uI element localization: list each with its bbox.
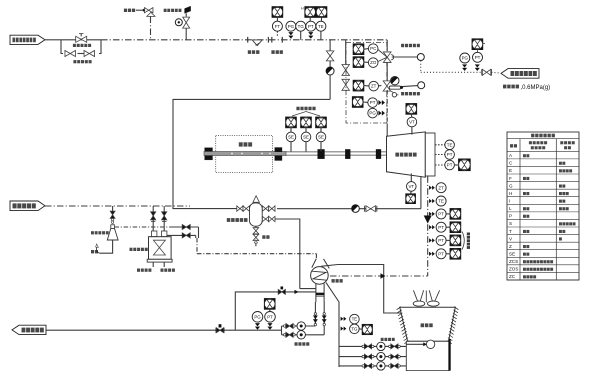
svg-text:T: T bbox=[509, 229, 512, 234]
condenser zigzag bbox=[312, 271, 327, 280]
separator vent triangle bbox=[253, 196, 260, 203]
valve ball bypass bbox=[326, 67, 334, 75]
wire bypass U-run to separator bbox=[173, 99, 330, 208]
circulating pump line y=365.9 bbox=[339, 365, 406, 367]
condensate drop legs from hotwell bbox=[314, 302, 316, 326]
instrument TG bbox=[296, 21, 306, 31]
svg-text:ZC: ZC bbox=[509, 274, 516, 279]
water-jet ejector inlet branches bbox=[152, 206, 154, 231]
svg-text:PT: PT bbox=[438, 212, 444, 217]
instrument TE circ bbox=[341, 317, 343, 321]
instrument SE stack x=291 bbox=[286, 117, 297, 128]
turbine casing bbox=[387, 132, 426, 177]
wire ejector suction dash-dot to jet-ejector bbox=[115, 226, 177, 228]
svg-text:ZT: ZT bbox=[438, 185, 444, 190]
generator dashed box bbox=[216, 136, 273, 173]
valve condensate outlet bbox=[216, 328, 220, 333]
svg-text:FT: FT bbox=[275, 24, 281, 29]
svg-text:L: L bbox=[509, 206, 512, 211]
wire main steam header (dash-dot) bbox=[101, 39, 387, 41]
shaft turbine section bbox=[286, 151, 386, 153]
orifice flow meter bbox=[271, 37, 273, 43]
svg-text:ZCS: ZCS bbox=[509, 259, 518, 264]
svg-text:ZOS: ZOS bbox=[509, 267, 518, 272]
svg-text:P: P bbox=[509, 214, 512, 219]
instrument PG bbox=[286, 21, 296, 31]
valve supply isolation 1 bbox=[342, 65, 350, 71]
node flag: MP steam inlet bbox=[10, 201, 45, 211]
valves separator outlet pair bbox=[262, 206, 265, 211]
startup ejector branch bbox=[112, 206, 114, 211]
valve isolation with flanges bbox=[366, 206, 371, 212]
svg-text:PT: PT bbox=[308, 24, 314, 29]
label cooling tower bbox=[421, 323, 425, 327]
svg-text:PT: PT bbox=[447, 163, 453, 168]
instrument TG circ with square bbox=[341, 327, 343, 331]
svg-text:S: S bbox=[509, 221, 512, 226]
wire condenser to circ header bbox=[326, 283, 339, 367]
coupling flanges bbox=[205, 148, 213, 152]
svg-text:E: E bbox=[509, 168, 512, 173]
instrument VT below turbine bbox=[410, 174, 412, 182]
svg-text:PT: PT bbox=[438, 225, 444, 230]
label condenser bbox=[332, 279, 335, 283]
instrument PG condensate bbox=[252, 312, 263, 323]
cooling tower shell bbox=[400, 307, 456, 341]
svg-text:PT: PT bbox=[267, 314, 273, 319]
svg-text:I: I bbox=[509, 198, 510, 203]
instrument PT condensate with square bbox=[264, 298, 275, 309]
svg-text:ZT: ZT bbox=[371, 84, 377, 89]
instrument TE with square bbox=[316, 7, 327, 18]
svg-text:PC: PC bbox=[370, 46, 376, 51]
node flag: condensate out bbox=[12, 325, 46, 334]
safety relief valve branch bbox=[150, 17, 152, 40]
valve bypass-1 bbox=[65, 51, 70, 57]
wire spray line into tailpipe bbox=[300, 288, 316, 290]
node inlet-flag: steam from waste-heat boiler bbox=[10, 35, 45, 44]
labels to sump bbox=[137, 269, 140, 272]
ejector drain to atmosphere bbox=[100, 240, 113, 253]
tower fill hatching left bbox=[397, 307, 401, 310]
svg-text:TE: TE bbox=[352, 317, 358, 322]
svg-text:PT: PT bbox=[475, 55, 481, 60]
legend table frame bbox=[507, 132, 579, 280]
svg-text:PG: PG bbox=[369, 111, 376, 116]
wire vacuum dash-dot to condenser bbox=[196, 238, 198, 254]
separator vessel bbox=[250, 203, 263, 226]
valve small drain under governor bbox=[391, 91, 394, 93]
svg-text:Z: Z bbox=[509, 244, 512, 249]
svg-text:PT: PT bbox=[447, 152, 453, 157]
valve supply isolation 2 bbox=[342, 79, 350, 85]
wire separator aux to condenser spray bbox=[275, 219, 300, 289]
water-jet ejector vessel bbox=[152, 231, 157, 237]
svg-text:TG: TG bbox=[298, 24, 305, 29]
svg-text:VT: VT bbox=[408, 184, 414, 189]
startup ejector body bbox=[111, 225, 115, 229]
wire MP steam line dash-dot bbox=[45, 205, 190, 207]
wire steam to turbine inlet bbox=[386, 90, 388, 124]
legend title bbox=[531, 134, 534, 138]
instruments at exhaust hood right bbox=[435, 144, 445, 146]
basin suction circle bbox=[406, 343, 426, 345]
svg-text:PT: PT bbox=[370, 100, 376, 105]
node flag: purified compressed air inlet bbox=[501, 69, 539, 79]
valves separator inlet pair bbox=[237, 206, 240, 211]
valve main-steam isolation bbox=[76, 36, 82, 42]
svg-text:TE: TE bbox=[438, 199, 444, 204]
label separator bbox=[227, 218, 231, 222]
wire gland line from turbine down to bypass tie-in bbox=[420, 176, 422, 209]
shaft generator section bbox=[204, 152, 286, 156]
instrument SE stack x=321 bbox=[316, 117, 327, 128]
condenser neck bbox=[312, 259, 316, 268]
instrument PG row5 bbox=[368, 108, 378, 118]
instrument SE stack x=306 bbox=[301, 117, 312, 128]
vent silencer branch with motor valve bbox=[164, 9, 167, 12]
valve ball on bypass outlet bbox=[352, 205, 360, 213]
valve check on air supply bbox=[482, 69, 486, 75]
tower fans bbox=[413, 301, 425, 306]
svg-text:PT: PT bbox=[438, 238, 444, 243]
instrument square+ZO row2 bbox=[353, 57, 364, 68]
brace exhaust 2oo3 bbox=[462, 232, 464, 250]
valves separator lower outlet pair bbox=[261, 218, 264, 220]
svg-text:F: F bbox=[509, 176, 512, 181]
turbine exhaust hood rect bbox=[425, 133, 435, 176]
svg-text:VT: VT bbox=[409, 120, 415, 125]
valve motor-operated vent bbox=[175, 19, 182, 26]
svg-text:SE: SE bbox=[303, 135, 309, 140]
valve bypass isolation bbox=[326, 51, 334, 56]
valve quick-closing trip valve bbox=[383, 52, 391, 57]
instrument PT with square bbox=[305, 7, 316, 18]
label condensate pumps bbox=[295, 342, 298, 345]
valve governor control valve with actuator bbox=[383, 81, 391, 86]
wire separator outlet to exhaust bbox=[277, 208, 421, 210]
wire bypass branch down from header bbox=[329, 40, 331, 100]
wire exhaust line (dash-dot) down bbox=[427, 176, 429, 276]
valve bypass-2 bbox=[84, 51, 89, 57]
instrument square+PT row4 bbox=[352, 97, 363, 108]
condenser tailpipe bbox=[315, 284, 317, 303]
svg-text:PT: PT bbox=[438, 251, 444, 256]
svg-text:TE: TE bbox=[447, 142, 453, 147]
svg-text:PG: PG bbox=[288, 24, 295, 29]
condenser body bbox=[311, 267, 329, 285]
wire ejector outlets to vacuum line bbox=[171, 226, 198, 228]
flow arrow down on exhaust bbox=[424, 216, 432, 224]
strainer bbox=[247, 37, 249, 43]
instrument PG air bbox=[460, 53, 470, 63]
instrument VT above turbine bbox=[406, 103, 417, 114]
svg-text:SE: SE bbox=[509, 251, 515, 256]
wire branch to trip/control valves bbox=[345, 40, 347, 64]
wire exhaust into condenser bbox=[330, 275, 428, 277]
exhaust instrument column bbox=[429, 186, 431, 190]
wire pilot line from trip valve bbox=[392, 56, 418, 58]
svg-text:PG: PG bbox=[462, 56, 469, 61]
svg-text:ZO: ZO bbox=[370, 60, 377, 65]
wire instrument air dotted line bbox=[420, 61, 422, 73]
tower fill hatching right bbox=[454, 307, 458, 310]
svg-text:H: H bbox=[509, 191, 512, 196]
label jet ejector bbox=[130, 248, 133, 251]
circulating pump line y=346.4 bbox=[339, 345, 406, 347]
wire hot water to cooling tower bbox=[321, 265, 402, 314]
instrument square+PC row1 bbox=[353, 44, 364, 55]
svg-text:G: G bbox=[509, 183, 513, 188]
wire bypass loop around isolation valve bbox=[61, 40, 63, 54]
svg-text:SE: SE bbox=[318, 135, 324, 140]
instrument cabinet boundary (dash-dot box) bbox=[346, 43, 387, 124]
svg-text:H: H bbox=[301, 7, 304, 11]
label air pressure 0.6MPa(g) bbox=[503, 85, 506, 89]
svg-text:SE: SE bbox=[288, 135, 294, 140]
wire condensate header to flag bbox=[281, 326, 283, 335]
instrument PT air with square bbox=[472, 39, 483, 50]
wire main steam drop to trip valve bbox=[386, 40, 388, 51]
label circulating pumps bbox=[381, 338, 384, 341]
circulating pump line y=356.6 bbox=[339, 356, 406, 358]
svg-text:TG: TG bbox=[351, 326, 358, 331]
wire pilot line from governor valve bbox=[403, 86, 418, 87]
speed probes 2oo3 label + brace bbox=[296, 107, 299, 111]
tower basin bbox=[406, 341, 449, 370]
instrument FT with transmitter square bbox=[272, 7, 283, 18]
condensate pumps bbox=[282, 325, 316, 327]
svg-text:TE: TE bbox=[318, 24, 324, 29]
legend header bbox=[510, 144, 513, 147]
wire condensate recirculation bbox=[235, 292, 316, 330]
instrument square+ZT row3 bbox=[353, 80, 364, 91]
separator drain valves bbox=[255, 226, 257, 227]
svg-text:,0.6MPa(g): ,0.6MPa(g) bbox=[521, 85, 551, 91]
svg-text:PG: PG bbox=[254, 314, 261, 319]
